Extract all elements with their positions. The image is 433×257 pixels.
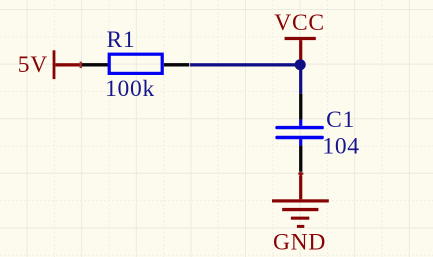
pin-end cross at R1 pin 1	[80, 62, 82, 69]
svg-text:R1: R1	[107, 27, 136, 53]
svg-text:5V: 5V	[18, 52, 48, 78]
svg-text:104: 104	[322, 134, 359, 160]
capacitor C1 bottom stub	[299, 139, 302, 145]
ground bar 3	[291, 217, 309, 220]
ground bar 4	[297, 225, 304, 228]
power port 5V bar	[53, 50, 56, 79]
wire junction to C1	[299, 70, 302, 94]
svg-text:100k: 100k	[105, 76, 155, 102]
ground bar 2	[282, 208, 318, 211]
C1 pin 2	[299, 146, 302, 172]
R1 pin 1	[82, 63, 108, 66]
svg-text:VCC: VCC	[274, 10, 324, 36]
svg-text:C1: C1	[326, 107, 355, 133]
power port VCC bar	[285, 37, 316, 40]
ground bar 1	[272, 199, 329, 202]
ground GND stem	[299, 172, 302, 199]
C1 pin 1	[299, 94, 302, 120]
power port VCC stem	[299, 40, 302, 60]
capacitor C1 top stub	[299, 120, 302, 126]
R1 pin 2	[164, 63, 189, 66]
svg-text:GND: GND	[273, 230, 326, 256]
junction node	[295, 59, 306, 70]
capacitor C1 bottom plate	[275, 136, 323, 140]
power port 5V lead wire	[55, 63, 80, 66]
resistor R1 body	[109, 54, 162, 73]
capacitor C1 top plate	[275, 126, 323, 129]
wire from R1 to junction	[190, 63, 301, 66]
pin-end cross at C1 pin 2	[298, 173, 303, 175]
